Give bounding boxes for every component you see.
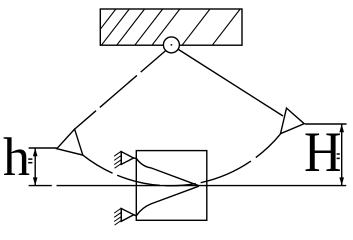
pivot center dot (171, 44, 173, 46)
lower anchor hatching (114, 208, 121, 225)
lower anchor triangle (121, 209, 134, 222)
label H (304, 120, 341, 185)
label h (3, 126, 30, 188)
left string (dashed, initial position) (75, 51, 166, 129)
h dimension top reference line (29, 147, 57, 149)
h dimension arrow down (33, 177, 38, 185)
H dimension arrow up (339, 124, 344, 132)
upper anchor wall bar (120, 151, 122, 165)
baseline (ground reference line) main segment (57, 185, 347, 187)
H dimension line (341, 124, 343, 186)
h dimension arrow up (33, 148, 38, 156)
box (container) (136, 151, 207, 221)
H dimension top reference line (305, 123, 347, 125)
hatch lines of ceiling (100, 9, 240, 45)
h ticks (28, 159, 32, 163)
lower anchor link to box (134, 215, 137, 216)
upper anchor link to box (134, 157, 137, 159)
H dimension arrow down (339, 177, 344, 185)
left bob (triangle, initial position) (57, 129, 83, 155)
right bob (triangle, final position) (281, 108, 305, 134)
upper anchor triangle (121, 152, 133, 165)
upper anchor hatching (114, 151, 121, 168)
h dimension line (34, 148, 36, 186)
ceiling support (hatched block) (100, 9, 242, 45)
lower cord (from lower anchor to pull point) (136, 186, 199, 216)
H ticks (337, 154, 340, 158)
pivot circle (163, 37, 179, 53)
lower anchor wall bar (120, 208, 122, 222)
baseline (ground reference line) left segment (29, 185, 52, 187)
upper cord (from upper anchor to pull point) (136, 158, 199, 185)
right string (solid, final position) (179, 50, 284, 117)
dashed swing arc (83, 134, 281, 186)
